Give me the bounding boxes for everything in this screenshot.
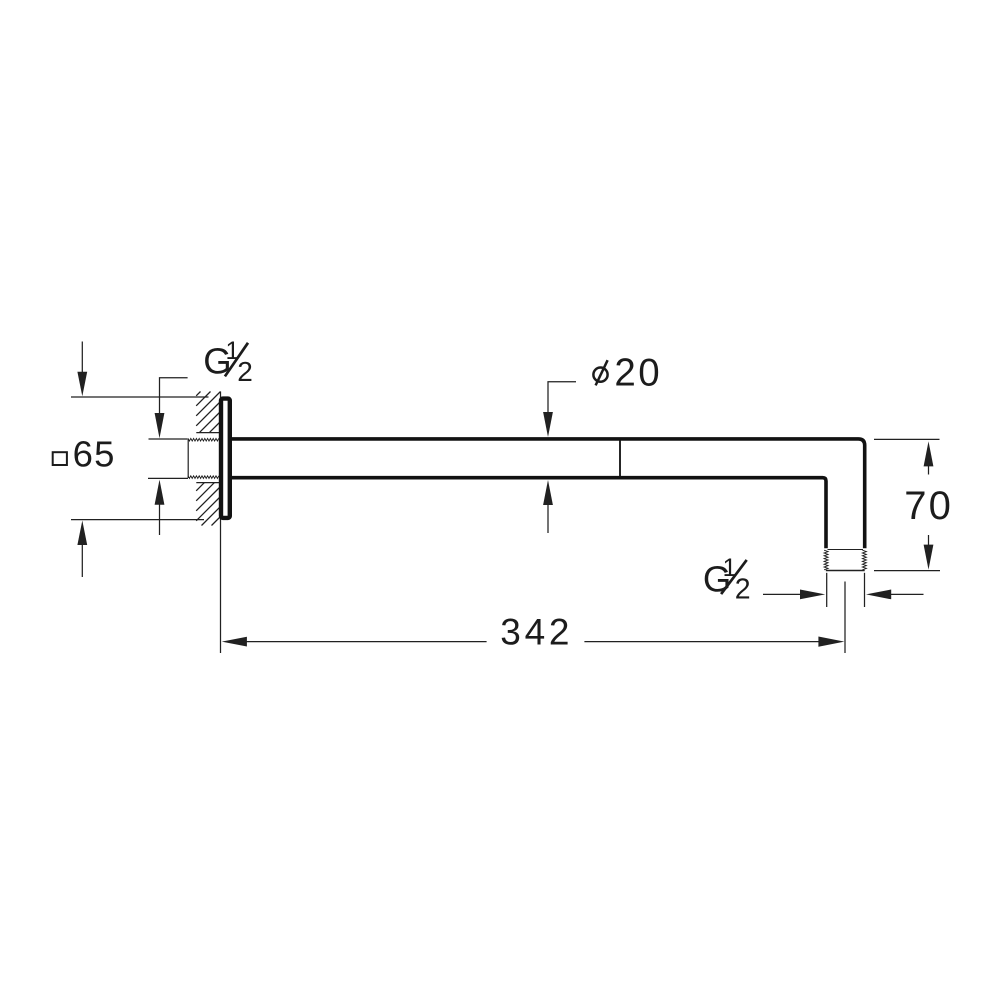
arm joint line [619, 441, 621, 477]
dim 70 bottom arrow [928, 535, 930, 546]
arm bottom outline [231, 478, 826, 549]
svg-text:2: 2 [735, 574, 751, 606]
wall flange [221, 399, 230, 518]
dim dia20 leader [548, 382, 576, 413]
dim G12-left bottom extension line [148, 477, 188, 479]
inlet thread bottom [188, 476, 219, 479]
dim G12-left top arrow [155, 413, 165, 438]
dim G12-right left extension line [826, 573, 828, 607]
inlet thread top [188, 438, 219, 441]
dim 70 top extension line [874, 438, 940, 440]
dim G12-left bottom arrow [155, 480, 165, 505]
svg-text:2: 2 [237, 356, 253, 387]
dim sq65 bottom arrow [77, 521, 87, 546]
wall hatch lower [196, 483, 220, 526]
dim 70 top arrow [924, 441, 934, 466]
dim G12-right left arrow [763, 593, 801, 595]
svg-text:65: 65 [73, 434, 116, 475]
dim dia20 top arrow [543, 412, 553, 437]
arm body fill [231, 439, 865, 549]
label dia symbol [593, 368, 607, 382]
outlet thread bottom cap [826, 570, 865, 572]
outlet thread left [824, 550, 828, 570]
arm top outline [231, 439, 865, 548]
dim sq65 top extension line [71, 396, 209, 398]
svg-text:20: 20 [614, 351, 662, 394]
wall face line / 342 left extension line [220, 392, 222, 654]
wall hatch upper [196, 392, 220, 433]
outlet thread shoulder [828, 549, 864, 551]
dim sq65 top arrow [81, 342, 83, 374]
outlet thread right [862, 550, 866, 570]
dim 70 bottom extension line [874, 570, 940, 572]
dim G12-left leader [160, 378, 188, 414]
wall hole bottom line [196, 482, 219, 484]
dim dia20 bottom arrow [543, 480, 553, 505]
dim G12-left top extension line [149, 438, 188, 440]
wall hole top line [196, 432, 219, 434]
svg-text:342: 342 [500, 612, 573, 653]
dim 342 right arrow [584, 641, 819, 643]
label sq65 square symbol [53, 452, 67, 465]
svg-text:70: 70 [904, 484, 953, 528]
dim sq65 bottom extension line [71, 519, 204, 521]
dim G12-right right extension line [864, 573, 866, 607]
dim G12-right right arrow [866, 590, 891, 600]
dim 342 left arrow [222, 637, 247, 647]
inlet pipe body [188, 440, 220, 478]
inlet pipe end cap [187, 439, 189, 478]
dim 342 right extension line [844, 582, 846, 654]
